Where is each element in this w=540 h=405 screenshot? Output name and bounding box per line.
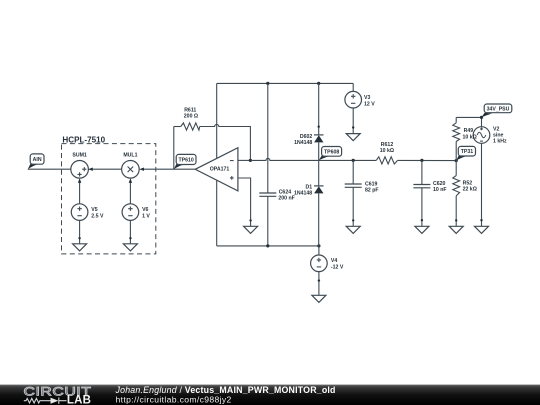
svg-text:1 V: 1 V <box>142 214 150 220</box>
diode D602 <box>294 134 323 146</box>
svg-text:200 Ω: 200 Ω <box>184 114 198 120</box>
resistor R611 <box>174 108 251 170</box>
svg-text:TP608: TP608 <box>324 149 339 155</box>
resistor R49 <box>453 117 460 175</box>
svg-text:AIN: AIN <box>33 157 42 163</box>
svg-text:TP31: TP31 <box>461 149 474 155</box>
source V5 <box>71 204 104 221</box>
ground under R52 <box>449 226 463 233</box>
svg-text:R49: R49 <box>464 128 474 134</box>
node at minus input <box>249 159 252 162</box>
node at R49/R52/R612 junction <box>455 159 458 162</box>
svg-text:SUM1: SUM1 <box>72 152 87 158</box>
svg-text:12 V: 12 V <box>364 101 375 107</box>
svg-text:V5: V5 <box>91 207 97 213</box>
capacitor C624 <box>259 83 295 246</box>
ground under C620 <box>415 226 429 233</box>
opamp minus pin wire <box>238 159 251 161</box>
ground under V3 <box>346 134 360 141</box>
op-amp U1 OPA171 <box>195 148 238 191</box>
ground under V4 <box>312 295 326 302</box>
svg-text:10 kΩ: 10 kΩ <box>380 148 394 154</box>
svg-text:10 kΩ: 10 kΩ <box>463 135 477 141</box>
svg-text:10 nF: 10 nF <box>433 187 447 193</box>
dashed HCPL-7510 box <box>62 144 156 254</box>
test point TP31 flag <box>456 146 475 160</box>
svg-text:1N4148: 1N4148 <box>294 140 312 146</box>
ground under C619 <box>346 226 360 233</box>
wire minus node to TP608 node with hop over C624 line <box>250 158 376 160</box>
top right wire R49 to V2 <box>456 117 481 126</box>
diode branch wire <box>318 83 320 134</box>
svg-text:V6: V6 <box>142 207 148 213</box>
wire opamp output to MUL1 with arrow <box>144 168 195 170</box>
svg-text:200 nF: 200 nF <box>278 196 294 202</box>
svg-text:1N4148: 1N4148 <box>294 191 312 197</box>
source V6 <box>122 204 150 221</box>
wire MUL1 to SUM1 with arrow <box>93 168 122 170</box>
power vertical wire (behind op-amp) <box>216 83 218 158</box>
ground under V5 <box>73 244 87 251</box>
top rail wire <box>217 82 354 84</box>
source V2 sine <box>463 126 507 144</box>
svg-text:R611: R611 <box>184 108 196 114</box>
capacitor C620 <box>413 160 446 226</box>
resistor R52 <box>453 176 477 227</box>
summer SUM1 <box>71 152 89 178</box>
svg-text:V3: V3 <box>364 95 370 101</box>
node at C620 <box>420 159 423 162</box>
test point TP610 flag <box>174 154 196 169</box>
diode D1 <box>294 185 323 197</box>
svg-text:http://circuitlab.com/c988jy2: http://circuitlab.com/c988jy2 <box>116 394 232 404</box>
logo resistor-diode squiggle <box>24 398 67 404</box>
svg-text:D1: D1 <box>306 185 313 191</box>
bottom wire <box>217 245 319 247</box>
svg-text:LAB: LAB <box>67 395 91 405</box>
resistor R612 <box>376 142 456 164</box>
node 34V_PSU flag <box>482 104 512 117</box>
svg-text:OPA171: OPA171 <box>210 166 230 172</box>
svg-text:Johan.Englund / Vectus_MAIN_PW: Johan.Englund / Vectus_MAIN_PWR_MONITOR_… <box>115 385 336 395</box>
svg-text:34V_PSU: 34V_PSU <box>487 106 510 112</box>
ground under V6 <box>123 244 137 251</box>
source V4 <box>311 246 344 272</box>
svg-text:-12 V: -12 V <box>331 265 344 271</box>
svg-text:HCPL-7510: HCPL-7510 <box>62 135 105 144</box>
svg-text:R612: R612 <box>381 142 394 148</box>
wire V6 to ground <box>129 220 131 243</box>
svg-text:TP610: TP610 <box>178 158 193 164</box>
test point TP608 flag <box>319 147 342 161</box>
svg-text:MUL1: MUL1 <box>123 152 137 158</box>
ground under V2 <box>475 226 489 233</box>
svg-text:2.5 V: 2.5 V <box>91 214 104 220</box>
wire AIN to SUM1 <box>28 168 71 170</box>
svg-text:22 kΩ: 22 kΩ <box>463 187 477 193</box>
wire V5 to SUM1 with arrow <box>79 183 81 204</box>
source V3 <box>345 83 375 108</box>
wire V6 to MUL1 with arrow <box>129 183 131 204</box>
node on main wire for C619 <box>352 159 355 162</box>
node AIN flag <box>28 154 44 169</box>
capacitor C619 <box>345 160 379 226</box>
svg-text:82 pF: 82 pF <box>365 188 379 194</box>
opamp plus pin wire to ground <box>238 178 251 226</box>
wire V5 to ground <box>79 220 81 243</box>
ground at plus input <box>244 226 258 233</box>
logo CIRCUIT <box>24 384 92 398</box>
svg-text:R52: R52 <box>463 180 473 186</box>
multiplier MUL1 <box>122 152 140 178</box>
svg-text:1 kHz: 1 kHz <box>493 138 507 144</box>
svg-text:V4: V4 <box>331 258 337 264</box>
